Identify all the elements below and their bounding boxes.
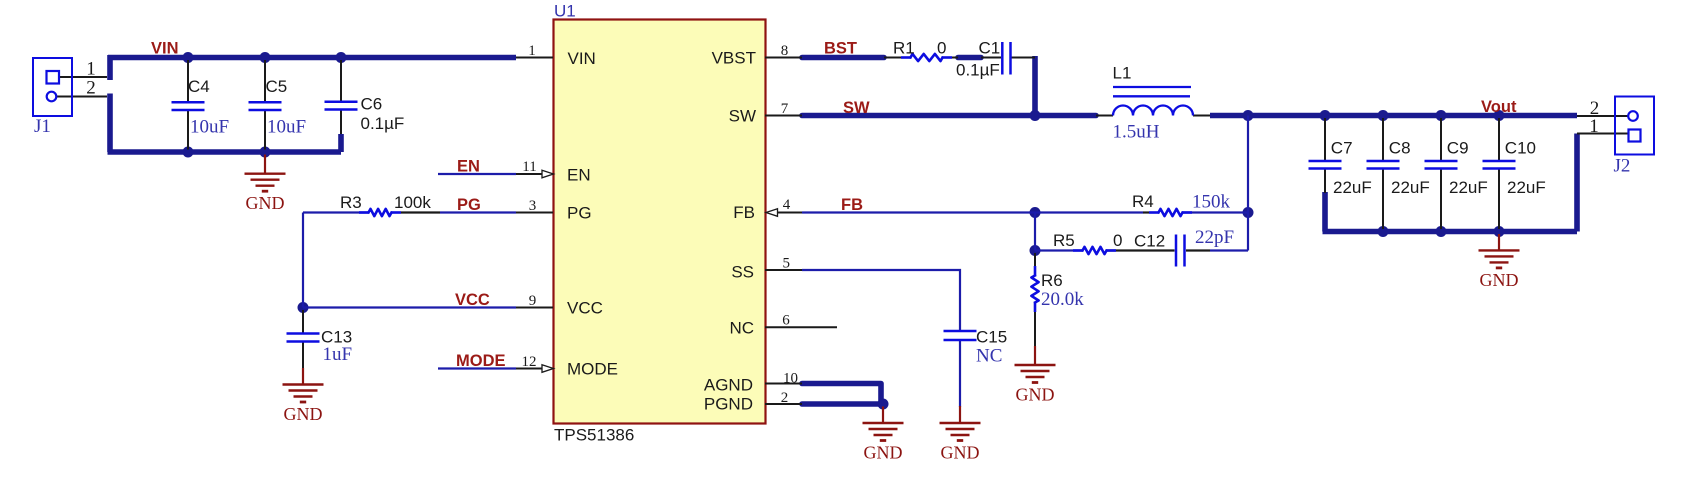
svg-text:C4: C4 — [188, 77, 210, 96]
svg-text:EN: EN — [457, 158, 480, 176]
svg-text:R5: R5 — [1053, 231, 1075, 250]
svg-text:C7: C7 — [1331, 139, 1353, 158]
svg-text:MODE: MODE — [567, 360, 618, 379]
svg-text:L1: L1 — [1113, 64, 1132, 83]
svg-text:U1: U1 — [554, 2, 576, 21]
svg-text:C8: C8 — [1389, 139, 1411, 158]
svg-text:3: 3 — [529, 198, 537, 214]
svg-text:R1: R1 — [893, 39, 915, 58]
svg-text:12: 12 — [522, 354, 537, 370]
svg-text:22uF: 22uF — [1391, 178, 1430, 197]
svg-text:GND: GND — [941, 443, 980, 463]
svg-text:C5: C5 — [266, 77, 288, 96]
svg-text:8: 8 — [781, 43, 789, 59]
svg-text:FB: FB — [733, 203, 755, 222]
svg-text:C6: C6 — [361, 95, 383, 114]
svg-text:C1: C1 — [979, 39, 1001, 58]
svg-text:0: 0 — [937, 39, 946, 58]
svg-text:PG: PG — [457, 196, 481, 214]
svg-text:1: 1 — [86, 59, 96, 80]
svg-text:GND: GND — [1480, 270, 1519, 290]
svg-text:20.0k: 20.0k — [1041, 289, 1084, 310]
svg-text:Vout: Vout — [1481, 98, 1517, 116]
svg-text:GND: GND — [246, 193, 285, 213]
svg-text:6: 6 — [782, 313, 790, 329]
svg-text:10: 10 — [783, 371, 798, 387]
svg-text:SS: SS — [731, 263, 754, 282]
svg-text:PGND: PGND — [704, 395, 753, 414]
svg-text:J1: J1 — [34, 116, 51, 137]
svg-text:AGND: AGND — [704, 376, 753, 395]
svg-text:C12: C12 — [1134, 232, 1165, 251]
svg-text:22uF: 22uF — [1507, 178, 1546, 197]
svg-text:150k: 150k — [1192, 192, 1231, 213]
svg-text:22pF: 22pF — [1195, 227, 1234, 248]
svg-text:TPS51386: TPS51386 — [554, 426, 634, 445]
svg-text:10uF: 10uF — [267, 117, 306, 138]
svg-text:0.1µF: 0.1µF — [956, 61, 1000, 80]
svg-text:C15: C15 — [976, 328, 1007, 347]
svg-text:2: 2 — [86, 78, 96, 99]
svg-text:11: 11 — [522, 159, 536, 175]
svg-text:10uF: 10uF — [190, 117, 229, 138]
svg-text:J2: J2 — [1614, 156, 1631, 177]
svg-text:1uF: 1uF — [323, 344, 353, 365]
svg-text:GND: GND — [284, 404, 323, 424]
svg-text:SW: SW — [843, 99, 870, 117]
svg-text:EN: EN — [567, 166, 591, 185]
svg-text:VCC: VCC — [567, 299, 603, 318]
svg-text:VBST: VBST — [712, 49, 756, 68]
svg-text:R4: R4 — [1132, 192, 1154, 211]
svg-text:SW: SW — [729, 107, 756, 126]
svg-text:GND: GND — [1016, 385, 1055, 405]
svg-text:100k: 100k — [394, 193, 431, 212]
svg-text:BST: BST — [824, 40, 857, 58]
svg-text:1: 1 — [1589, 116, 1599, 137]
svg-text:0.1µF: 0.1µF — [361, 114, 405, 133]
svg-text:9: 9 — [529, 293, 537, 309]
svg-text:7: 7 — [781, 101, 789, 117]
svg-text:5: 5 — [783, 256, 791, 272]
svg-text:22uF: 22uF — [1333, 178, 1372, 197]
svg-text:FB: FB — [841, 196, 863, 214]
svg-text:2: 2 — [781, 390, 789, 406]
svg-text:4: 4 — [783, 197, 791, 213]
svg-text:NC: NC — [729, 319, 754, 338]
svg-text:1.5uH: 1.5uH — [1113, 122, 1160, 143]
svg-text:22uF: 22uF — [1449, 178, 1488, 197]
svg-text:GND: GND — [864, 443, 903, 463]
svg-text:R6: R6 — [1041, 271, 1063, 290]
svg-text:1: 1 — [528, 43, 536, 59]
svg-text:VIN: VIN — [151, 40, 179, 58]
svg-text:C9: C9 — [1447, 139, 1469, 158]
svg-text:VIN: VIN — [568, 49, 596, 68]
svg-text:C10: C10 — [1505, 139, 1536, 158]
svg-text:0: 0 — [1113, 231, 1122, 250]
svg-text:PG: PG — [567, 204, 592, 223]
svg-text:VCC: VCC — [455, 291, 490, 309]
svg-text:R3: R3 — [340, 193, 362, 212]
svg-text:MODE: MODE — [456, 352, 506, 370]
svg-text:NC: NC — [976, 346, 1002, 367]
